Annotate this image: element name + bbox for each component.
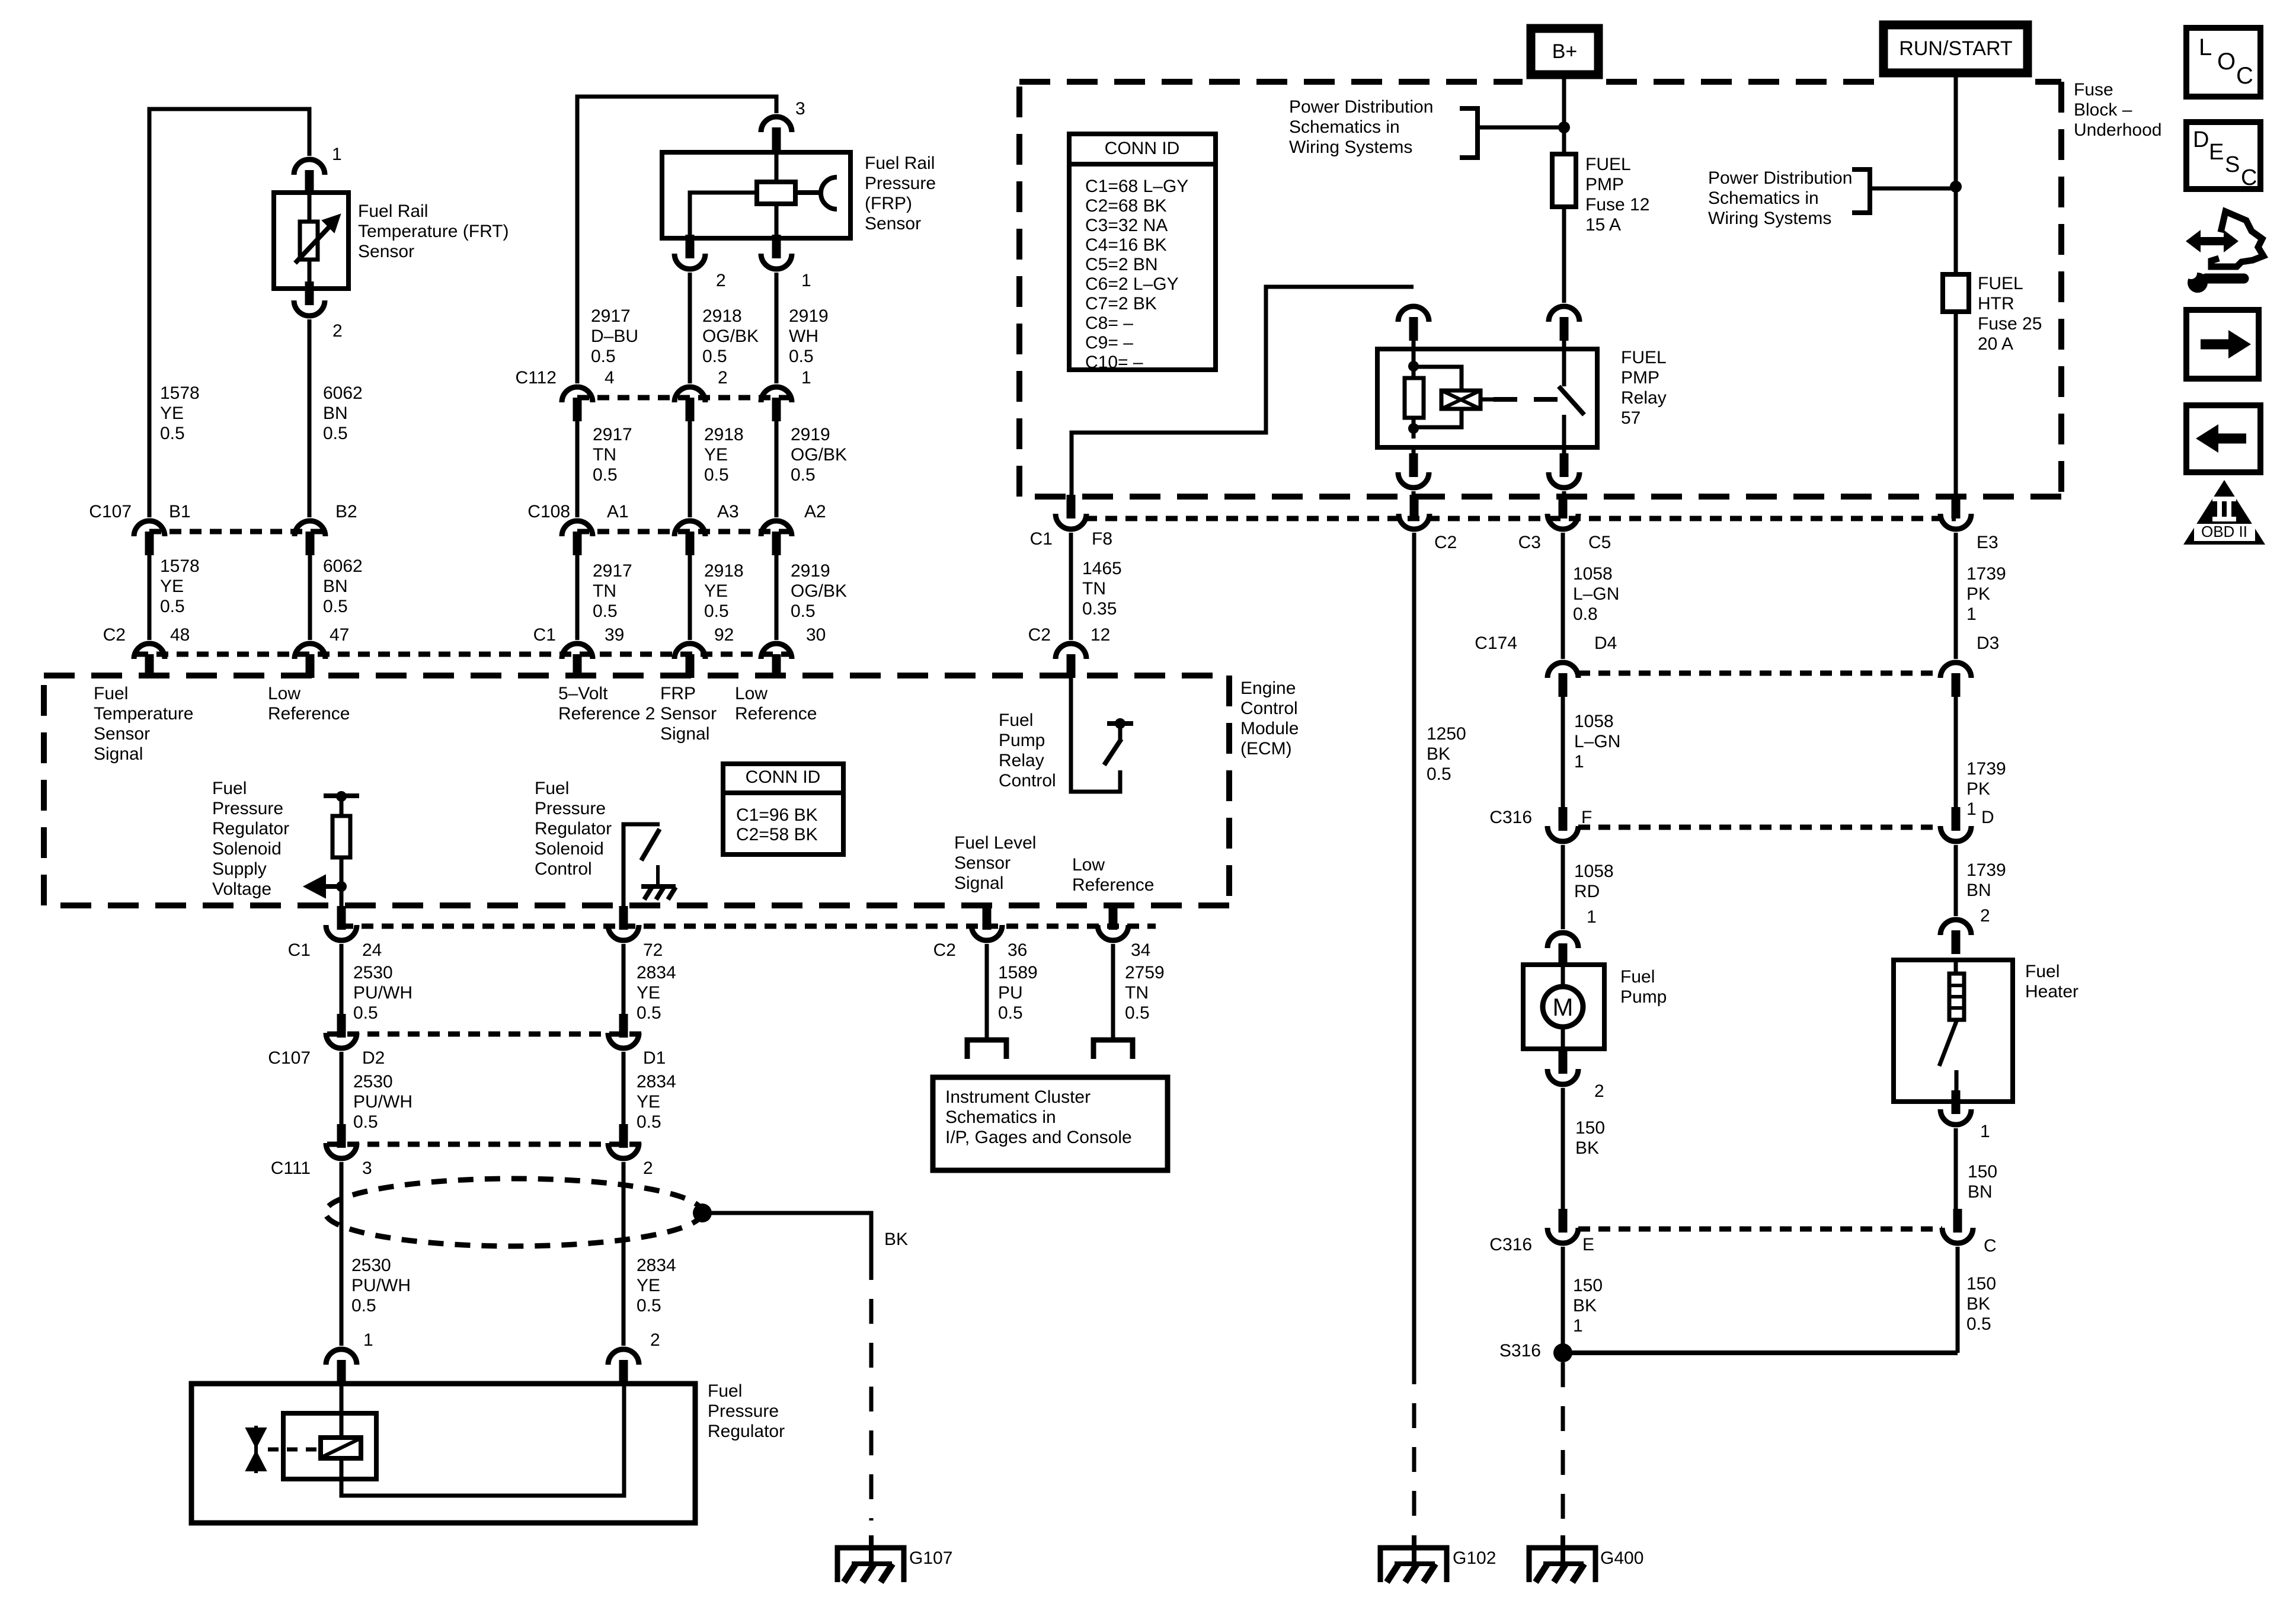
connector row C316 E/C dotted line <box>1578 1227 1942 1232</box>
svg-text:1: 1 <box>1574 752 1584 772</box>
svg-text:S: S <box>2225 152 2240 177</box>
svg-text:2: 2 <box>718 368 728 388</box>
FRT sensor box (Fuel Rail Temperature Sensor) <box>274 193 348 289</box>
svg-text:1: 1 <box>1587 907 1597 927</box>
svg-text:D4: D4 <box>1594 633 1617 653</box>
CONN ID table (ECM connectors) <box>723 764 843 854</box>
svg-text:BK: BK <box>1575 1138 1599 1158</box>
svg-text:Signal: Signal <box>954 873 1003 893</box>
svg-text:Regulator: Regulator <box>708 1422 785 1441</box>
supply voltage arrow (points left) <box>325 884 341 889</box>
svg-text:Pressure: Pressure <box>865 174 936 193</box>
connector pin C3/C5 <box>1547 495 1578 529</box>
svg-text:PK: PK <box>1966 584 1990 604</box>
svg-text:D: D <box>1981 808 1994 827</box>
svg-text:D: D <box>2193 127 2209 152</box>
svg-text:2: 2 <box>1980 906 1990 926</box>
svg-text:Reference: Reference <box>1072 875 1154 895</box>
relay coil pin wire <box>1412 341 1416 378</box>
bowtie stem <box>254 1426 258 1473</box>
svg-text:C2: C2 <box>103 625 126 645</box>
svg-text:E: E <box>2209 140 2224 165</box>
svg-text:2: 2 <box>332 321 343 341</box>
svg-text:FUEL: FUEL <box>1978 274 2023 293</box>
svg-text:D2: D2 <box>362 1048 385 1068</box>
connector C108 pin A3 <box>674 521 705 555</box>
svg-text:G102: G102 <box>1453 1548 1496 1568</box>
svg-text:Regulator: Regulator <box>535 819 612 838</box>
svg-text:150: 150 <box>1573 1276 1603 1295</box>
svg-text:1739: 1739 <box>1966 564 2006 584</box>
connector C316 pin F <box>1547 807 1578 841</box>
connector ECM C1 pin 39 <box>562 644 593 678</box>
svg-text:PU/WH: PU/WH <box>351 1276 411 1295</box>
svg-text:1250: 1250 <box>1427 724 1466 744</box>
svg-text:0.5: 0.5 <box>998 1003 1023 1023</box>
svg-text:Low: Low <box>268 684 300 703</box>
svg-text:2530: 2530 <box>353 1072 393 1092</box>
relay resistor lower wire <box>1412 418 1416 438</box>
connector FRP sensor pin 2 <box>674 235 705 269</box>
svg-text:Schematics in: Schematics in <box>1289 117 1400 137</box>
svg-text:C1: C1 <box>533 625 556 645</box>
wire 1739 BN <box>1954 845 1958 916</box>
svg-text:C107: C107 <box>89 502 132 521</box>
ECM internal ground (solenoid control) <box>641 865 676 900</box>
svg-text:Regulator: Regulator <box>212 819 289 838</box>
wire relay coil return to C2 <box>1412 491 1416 495</box>
svg-text:Engine: Engine <box>1240 678 1296 698</box>
svg-text:0.5: 0.5 <box>593 465 618 485</box>
ECM internal fuel pump relay control driver wire <box>1071 678 1120 792</box>
connector row C108 dotted line <box>577 529 791 534</box>
svg-text:Pressure: Pressure <box>212 799 283 818</box>
reference bracket (power distribution right) <box>1852 169 1870 213</box>
svg-text:TN: TN <box>1125 983 1149 1003</box>
svg-text:Signal: Signal <box>660 724 709 744</box>
svg-text:150: 150 <box>1575 1118 1605 1138</box>
relay coil parallel branch <box>1414 367 1462 427</box>
junction dot (RUN/START tap) <box>1950 181 1962 193</box>
Fuel Heater box <box>1894 960 2013 1102</box>
relay internal junction top <box>1408 361 1419 372</box>
connector row C174 dotted line <box>1578 671 1940 676</box>
connector C112 pin 1 <box>761 387 792 421</box>
wire S316 to G400 dashed <box>1561 1362 1565 1521</box>
FRP internal wire transducer to pin 1 <box>775 204 779 238</box>
FRP pressure port fork symbol <box>795 177 837 209</box>
wire 2918 YE lower segment <box>688 555 692 640</box>
connector C107 pin D2 <box>326 1014 357 1048</box>
reference bracket (power distribution left) <box>1460 108 1478 158</box>
svg-text:0.5: 0.5 <box>637 1112 661 1132</box>
svg-text:1739: 1739 <box>1966 860 2006 880</box>
svg-text:1: 1 <box>363 1330 373 1350</box>
svg-text:OG/BK: OG/BK <box>791 445 847 465</box>
svg-text:L–GN: L–GN <box>1573 584 1619 604</box>
svg-text:0.5: 0.5 <box>160 597 185 616</box>
ECM exit connector dotted line <box>341 924 1156 929</box>
FRT sensor circuit top loop wire <box>149 109 309 517</box>
svg-text:B1: B1 <box>169 502 191 521</box>
relay coil feed wire (to ECM F8) <box>1072 287 1414 495</box>
connector row C112 dotted line <box>577 395 791 401</box>
svg-text:M: M <box>1553 993 1574 1021</box>
wire pin 34 stub below ECM <box>1111 905 1115 917</box>
svg-text:C1: C1 <box>1030 529 1053 549</box>
svg-text:3: 3 <box>795 99 805 119</box>
connector pin C2 (fuse block) <box>1399 495 1430 529</box>
svg-text:TN: TN <box>593 581 616 601</box>
svg-text:BK: BK <box>884 1230 908 1249</box>
ground G400 <box>1529 1535 1595 1582</box>
connector pin E3 <box>1940 495 1971 529</box>
relay control switch blade <box>1104 739 1121 765</box>
svg-text:C1=68 L–GY: C1=68 L–GY <box>1085 177 1188 196</box>
svg-text:C1=96 BK: C1=96 BK <box>736 805 818 825</box>
svg-text:C107: C107 <box>268 1048 311 1068</box>
heater thermal switch blade <box>1939 1020 1957 1066</box>
svg-text:2530: 2530 <box>351 1256 391 1275</box>
svg-text:D3: D3 <box>1977 633 1999 653</box>
relay control pivot dot <box>1115 718 1125 729</box>
wire 1058 RD <box>1561 845 1565 929</box>
svg-text:C7=2 BK: C7=2 BK <box>1085 294 1157 313</box>
svg-text:1: 1 <box>801 368 811 388</box>
svg-text:Signal: Signal <box>94 744 143 764</box>
svg-text:BK: BK <box>1966 1294 1990 1314</box>
svg-text:C316: C316 <box>1489 808 1532 827</box>
wire 2919 WH upper segment <box>775 273 779 383</box>
svg-text:Voltage: Voltage <box>212 879 271 899</box>
svg-text:PU/WH: PU/WH <box>353 1092 412 1112</box>
wire relay output to C3 <box>1562 491 1566 495</box>
Fuse Block - Underhood dashed box <box>1019 82 2061 497</box>
ground G102 <box>1380 1535 1447 1582</box>
svg-text:2918: 2918 <box>704 561 744 581</box>
svg-text:C2: C2 <box>933 940 956 960</box>
svg-text:Fuel: Fuel <box>212 779 247 798</box>
svg-text:RUN/START: RUN/START <box>1899 37 2012 60</box>
svg-text:0.5: 0.5 <box>160 424 185 443</box>
svg-text:C: C <box>1984 1236 1997 1256</box>
svg-text:C1: C1 <box>288 940 311 960</box>
svg-text:Fuel: Fuel <box>94 684 128 703</box>
wire 1250 BK dashed segment <box>1412 1359 1416 1521</box>
wire 2919 OG/BK middle segment <box>775 421 779 517</box>
wire 1589 PU <box>985 944 989 1040</box>
relay switch blade <box>1559 386 1584 415</box>
svg-text:Reference: Reference <box>735 704 817 724</box>
svg-text:A2: A2 <box>804 502 826 521</box>
wire pin 24 stub below ECM <box>340 907 344 917</box>
connector fuel heater pin 1 <box>1940 1090 1971 1125</box>
wire 2918 OG/BK upper segment <box>688 273 692 383</box>
wire Fuse 12 to relay pin <box>1562 207 1566 303</box>
svg-text:BK: BK <box>1427 744 1450 764</box>
wire 2530 PU/WH segment 1 <box>340 944 344 1014</box>
svg-text:Pump: Pump <box>999 731 1045 750</box>
wire 1578 YE lower segment <box>148 555 152 640</box>
svg-text:Fuel: Fuel <box>535 779 569 798</box>
svg-text:1: 1 <box>1966 604 1977 624</box>
svg-text:0.5: 0.5 <box>323 597 348 616</box>
svg-text:(ECM): (ECM) <box>1240 739 1292 758</box>
connector fuel pump pin 1 <box>1547 933 1578 967</box>
svg-text:CONN ID: CONN ID <box>746 767 821 787</box>
svg-text:0.5: 0.5 <box>637 1296 661 1315</box>
svg-text:YE: YE <box>637 1276 660 1295</box>
relay switch output contact <box>1562 415 1566 447</box>
svg-text:WH: WH <box>789 327 818 346</box>
icon OBD II triangle <box>2183 480 2265 545</box>
svg-text:Fuse 25: Fuse 25 <box>1978 314 2042 334</box>
svg-text:D–BU: D–BU <box>591 327 638 346</box>
svg-text:1578: 1578 <box>160 383 200 403</box>
svg-text:BN: BN <box>323 404 348 423</box>
Fuel Pump box <box>1523 965 1604 1049</box>
junction dot at arrow <box>336 881 347 892</box>
svg-text:2: 2 <box>643 1158 653 1178</box>
off-page terminal (2759) <box>1093 1040 1133 1059</box>
connector C316 pin E <box>1547 1209 1578 1243</box>
regulator solenoid coil <box>321 1438 361 1458</box>
fuel pump motor circle <box>1543 987 1583 1027</box>
svg-text:Fuse: Fuse <box>2074 80 2113 100</box>
svg-text:E: E <box>1582 1235 1594 1254</box>
relay terminal (switch feed) <box>1549 306 1579 341</box>
svg-text:Low: Low <box>735 684 768 703</box>
svg-text:34: 34 <box>1131 940 1150 960</box>
svg-text:57: 57 <box>1621 408 1641 428</box>
connector row C107 dotted line <box>149 529 323 534</box>
svg-text:YE: YE <box>704 581 728 601</box>
connector fuel heater pin 2 <box>1940 920 1971 954</box>
svg-text:4: 4 <box>605 368 615 388</box>
svg-text:0.5: 0.5 <box>353 1003 378 1023</box>
svg-text:Relay: Relay <box>1621 388 1667 408</box>
wire 150 BN <box>1954 1128 1958 1211</box>
FRP sensor top loop wire <box>577 97 776 383</box>
junction dot at T-bar <box>336 791 347 802</box>
svg-text:Sensor: Sensor <box>358 242 414 261</box>
RUN/START feed box <box>1884 25 2028 73</box>
svg-text:Sensor: Sensor <box>865 214 921 233</box>
connector C107 pin D1 <box>608 1014 639 1048</box>
svg-text:2917: 2917 <box>593 425 632 444</box>
svg-text:6062: 6062 <box>323 556 363 576</box>
svg-text:Solenoid: Solenoid <box>535 839 604 859</box>
relay coil X <box>1441 391 1480 409</box>
fuel pump pin 2 stub <box>1561 1049 1565 1052</box>
wire 1739 PK upper segment <box>1954 533 1958 659</box>
wire 150 BK 0.5 segment <box>1956 1247 1960 1353</box>
svg-text:C2: C2 <box>1434 533 1457 552</box>
svg-text:C6=2 L–GY: C6=2 L–GY <box>1085 274 1179 294</box>
connector C107 pin B1 <box>134 521 165 555</box>
off-page terminal (1589) <box>967 1040 1006 1059</box>
svg-text:C174: C174 <box>1475 633 1517 653</box>
connector FRT sensor pin 1 <box>294 159 325 194</box>
svg-text:15 A: 15 A <box>1585 215 1621 235</box>
wire resistor to arrow junction <box>340 857 344 907</box>
svg-text:48: 48 <box>170 625 190 645</box>
connector ECM C1 pin 30 <box>761 644 792 678</box>
svg-text:Fuel: Fuel <box>999 710 1033 730</box>
splice link S316 horizontal wire <box>1563 1350 1958 1355</box>
svg-text:Fuel: Fuel <box>2025 962 2060 981</box>
svg-text:Relay: Relay <box>999 751 1044 770</box>
FRT sensor internal wire <box>308 193 312 289</box>
wire 2530 PU/WH segment 3 <box>340 1162 344 1346</box>
fuse FUEL HTR Fuse 25 <box>1943 274 1969 312</box>
svg-text:FUEL: FUEL <box>1585 155 1631 174</box>
svg-text:2: 2 <box>1594 1081 1604 1101</box>
svg-text:0.5: 0.5 <box>704 465 729 485</box>
wire 2918 YE middle segment <box>688 421 692 517</box>
svg-text:Temperature: Temperature <box>94 704 193 724</box>
twisted-pair dashed ellipse <box>325 1179 702 1246</box>
svg-text:BN: BN <box>1966 881 1991 900</box>
svg-text:3: 3 <box>362 1158 372 1178</box>
svg-text:C316: C316 <box>1489 1235 1532 1254</box>
svg-text:Module: Module <box>1240 719 1299 738</box>
svg-text:Pressure: Pressure <box>535 799 606 818</box>
connector row C111 dotted line <box>327 1142 643 1147</box>
svg-text:C9= –: C9= – <box>1085 333 1133 353</box>
svg-text:24: 24 <box>362 940 382 960</box>
svg-text:36: 36 <box>1008 940 1027 960</box>
svg-text:1578: 1578 <box>160 556 200 576</box>
svg-text:12: 12 <box>1091 625 1110 645</box>
reference tap wire to bracket (right) <box>1870 187 1956 191</box>
wire 1578 YE upper segment <box>308 319 312 517</box>
svg-text:PMP: PMP <box>1621 368 1659 388</box>
svg-text:5–Volt: 5–Volt <box>558 684 608 703</box>
svg-text:YE: YE <box>637 983 660 1003</box>
svg-text:0.8: 0.8 <box>1573 604 1598 624</box>
svg-text:6062: 6062 <box>323 383 363 403</box>
connector C1 pin F8 <box>1056 495 1086 529</box>
svg-text:Control: Control <box>1240 699 1298 718</box>
svg-text:Supply: Supply <box>212 859 267 879</box>
wire 1058 L-GN lower segment <box>1561 697 1565 807</box>
svg-text:150: 150 <box>1968 1162 1997 1182</box>
svg-text:C3: C3 <box>1518 533 1541 552</box>
svg-text:2919: 2919 <box>791 425 830 444</box>
svg-text:1058: 1058 <box>1573 564 1613 584</box>
ECM connector row dotted line <box>136 652 791 657</box>
ground G107 <box>837 1535 904 1582</box>
connector C112 pin 2 <box>674 387 705 421</box>
heater switch contact <box>1955 1070 1959 1102</box>
svg-text:0.5: 0.5 <box>637 1003 661 1023</box>
svg-text:0.5: 0.5 <box>1125 1003 1150 1023</box>
wire 2834 YE segment 3 <box>622 1162 626 1346</box>
svg-text:HTR: HTR <box>1978 294 2014 313</box>
wire 1465 TN <box>1069 533 1073 640</box>
svg-text:Sensor: Sensor <box>954 853 1011 873</box>
icon DESC box <box>2186 122 2260 190</box>
icon forward arrow box <box>2186 310 2259 379</box>
svg-text:C108: C108 <box>527 502 570 521</box>
svg-text:C2=58 BK: C2=58 BK <box>736 825 818 844</box>
svg-text:YE: YE <box>637 1092 660 1112</box>
svg-text:0.5: 0.5 <box>791 601 816 621</box>
FRP transducer element <box>757 182 795 204</box>
svg-text:Heater: Heater <box>2025 982 2078 1001</box>
svg-text:Sensor: Sensor <box>660 704 717 724</box>
connector ECM C2 pin 48 <box>134 644 165 678</box>
svg-text:BN: BN <box>323 577 348 596</box>
connector ECM C2 pin 34 <box>1098 906 1128 940</box>
wire 2834 YE segment 1 <box>622 944 626 1014</box>
svg-text:YE: YE <box>160 404 184 423</box>
svg-text:F: F <box>1581 808 1592 827</box>
connector FRT sensor pin 2 <box>294 281 325 316</box>
fuse block exit dotted line <box>1085 516 1956 521</box>
svg-text:47: 47 <box>330 625 349 645</box>
svg-text:Sensor: Sensor <box>94 724 150 744</box>
svg-text:39: 39 <box>605 625 624 645</box>
svg-text:Temperature (FRT): Temperature (FRT) <box>358 222 509 241</box>
svg-text:B2: B2 <box>335 502 357 521</box>
svg-text:2917: 2917 <box>591 306 631 326</box>
regulator valve bowtie symbol <box>246 1428 266 1471</box>
svg-text:D1: D1 <box>643 1048 666 1068</box>
svg-text:FUEL: FUEL <box>1621 348 1667 367</box>
svg-text:2: 2 <box>650 1330 660 1350</box>
svg-text:2834: 2834 <box>637 1256 676 1275</box>
svg-text:PK: PK <box>1966 779 1990 799</box>
FRT thermistor element <box>300 222 318 260</box>
svg-text:0.5: 0.5 <box>351 1296 376 1315</box>
svg-text:2759: 2759 <box>1125 963 1165 982</box>
connector regulator pin 2 <box>608 1349 639 1384</box>
connector ECM C1 pin 92 <box>674 644 705 678</box>
svg-text:1: 1 <box>801 271 811 290</box>
svg-text:Wiring Systems: Wiring Systems <box>1708 209 1831 228</box>
connector ECM C1 pin 24 <box>326 906 357 940</box>
wire pin 36 stub below ECM <box>985 905 989 917</box>
CONN ID table (fuse block connectors) <box>1069 134 1216 372</box>
svg-text:C112: C112 <box>516 368 557 388</box>
wire 2530 PU/WH segment 2 <box>340 1052 344 1124</box>
svg-text:Reference 2: Reference 2 <box>558 704 655 724</box>
connector regulator pin 1 <box>326 1349 357 1384</box>
svg-text:Low: Low <box>1072 855 1105 875</box>
svg-text:TN: TN <box>593 445 616 465</box>
svg-text:L: L <box>2199 34 2212 60</box>
connector C111 pin 3 <box>326 1124 357 1158</box>
relay control pivot bar <box>1107 721 1133 726</box>
svg-text:B+: B+ <box>1552 40 1578 63</box>
svg-text:CONN ID: CONN ID <box>1105 139 1180 158</box>
svg-text:G400: G400 <box>1600 1548 1643 1568</box>
svg-text:C4=16 BK: C4=16 BK <box>1085 235 1167 255</box>
connector FRP sensor pin 3 <box>761 117 792 151</box>
relay socket terminal (coil return) <box>1398 453 1429 488</box>
relay mechanical link dashes <box>1494 397 1559 402</box>
svg-text:O: O <box>2217 49 2236 75</box>
connector ECM C1 pin 72 <box>608 906 639 940</box>
svg-text:Schematics in: Schematics in <box>945 1108 1056 1127</box>
relay pin stubs below box <box>1412 447 1416 453</box>
svg-text:2834: 2834 <box>637 1072 676 1092</box>
svg-text:2919: 2919 <box>789 306 829 326</box>
svg-text:BN: BN <box>1968 1182 1993 1202</box>
B+ feed box <box>1531 28 1598 75</box>
